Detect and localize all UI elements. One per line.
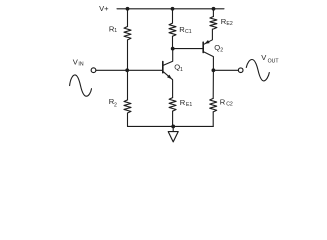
wire Q1 collector [163, 49, 172, 66]
svg-text:E1: E1 [186, 102, 192, 108]
transistor Q1 base bar [162, 62, 164, 73]
resistor R1 [124, 27, 131, 40]
svg-text:1: 1 [180, 67, 183, 73]
transistor Q2 emitter arrow [204, 40, 209, 44]
wire V+ top rail [117, 8, 224, 10]
wire RE2 branch from rail [212, 9, 214, 17]
node input junction R1/R2/Q1 base [125, 68, 129, 72]
transistor Q2 base bar [202, 42, 204, 52]
wire RC1 branch from rail [172, 9, 174, 23]
resistor RC1 [169, 23, 176, 36]
wire R1 branch from rail [127, 9, 129, 27]
ground symbol [168, 132, 178, 142]
svg-text:C1: C1 [185, 29, 192, 35]
svg-text:V+: V+ [99, 4, 109, 13]
node output Q2 collector/RC2 [212, 68, 216, 72]
wire node to Q2 base [173, 48, 203, 50]
resistor R2 [124, 100, 131, 113]
wire bottom rail [128, 125, 214, 127]
wire Q1 emitter [163, 72, 172, 98]
node V+/RC1 junction [171, 7, 175, 11]
transistor Q1 emitter arrow [167, 75, 172, 80]
wire R1 bottom to input node and on to R2 [127, 40, 129, 100]
wire ground stub [172, 126, 174, 131]
svg-text:R: R [180, 98, 186, 107]
resistor RE2 [210, 17, 217, 30]
wire RC2 bottom [212, 112, 214, 127]
wire RE1 bottom [172, 111, 174, 126]
resistor RE1 [169, 98, 176, 112]
VIN terminal circle [91, 68, 96, 73]
svg-text:C2: C2 [226, 102, 233, 108]
svg-text:1: 1 [114, 28, 117, 34]
wire Q2 collector [204, 52, 214, 70]
wire R2 bottom [127, 113, 129, 126]
svg-text:Q: Q [214, 43, 220, 52]
wire RC1 bottom to collector node [172, 36, 174, 48]
wire Q2 emitter [204, 29, 213, 44]
VIN source sine wave [70, 75, 92, 96]
svg-text:OUT: OUT [268, 59, 280, 65]
node RC1/Q1 collector/Q2 base [171, 47, 175, 51]
wire output node down to RC2 [212, 70, 214, 98]
svg-text:IN: IN [78, 62, 83, 68]
node V+/RE2 junction [212, 7, 216, 11]
svg-text:R: R [220, 98, 226, 107]
svg-text:2: 2 [220, 47, 223, 53]
wire VIN terminal to Q1 base [96, 69, 162, 71]
resistor RC2 [210, 98, 217, 112]
node ground junction [171, 125, 175, 129]
node V+/R1 junction [126, 7, 130, 11]
svg-text:E2: E2 [226, 21, 232, 27]
VOUT sine wave [246, 59, 269, 80]
svg-text:V: V [261, 53, 267, 62]
VOUT terminal circle [238, 68, 243, 73]
wire output node to VOUT terminal [213, 69, 238, 71]
svg-text:2: 2 [114, 102, 117, 108]
